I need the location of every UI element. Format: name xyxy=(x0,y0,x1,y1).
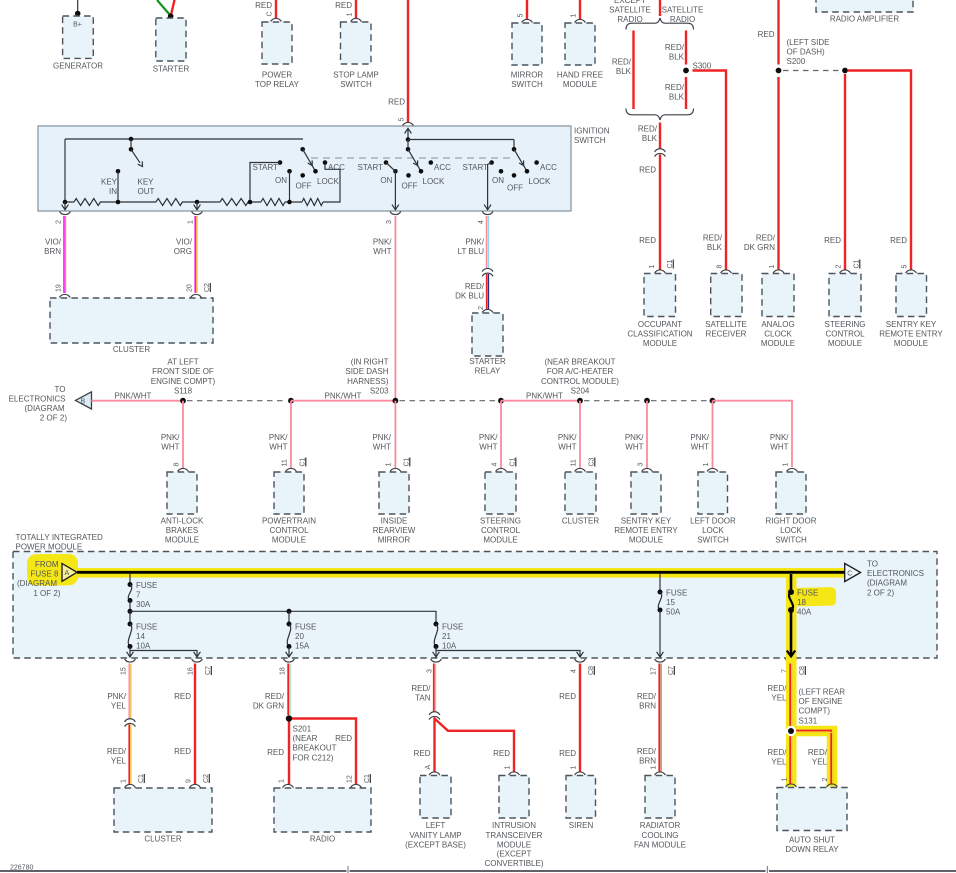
svg-text:AT LEFT: AT LEFT xyxy=(167,357,198,366)
wire RED S200 to analog clock module xyxy=(744,77,779,270)
svg-text:50A: 50A xyxy=(666,608,681,617)
svg-text:LOCK: LOCK xyxy=(317,177,339,186)
generator xyxy=(53,16,103,70)
svg-text:STARTER: STARTER xyxy=(153,65,190,74)
svg-text:RED: RED xyxy=(639,166,656,175)
svg-text:1: 1 xyxy=(188,220,195,224)
inline connector occupant wire xyxy=(655,149,666,157)
pin C1 radio xyxy=(364,774,371,783)
svg-text:PNK/: PNK/ xyxy=(690,433,709,442)
svg-text:RED: RED xyxy=(758,30,775,39)
svg-text:ACC: ACC xyxy=(328,163,345,172)
svg-text:DK GRN: DK GRN xyxy=(744,243,775,252)
wire RED/YEL to cluster pin1 xyxy=(107,724,131,784)
node S200 xyxy=(776,38,830,73)
svg-text:RED: RED xyxy=(414,749,431,758)
wire PNK/YEL tipm pin15 xyxy=(107,664,130,720)
left vanity lamp xyxy=(405,776,466,850)
svg-text:TO: TO xyxy=(55,385,66,394)
svg-text:2: 2 xyxy=(822,778,829,782)
connector arc stop lamp switch xyxy=(351,18,362,21)
svg-text:RED: RED xyxy=(493,749,510,758)
wire PNK/WHT ignition pin 3 to S203 xyxy=(373,216,396,400)
wire RED tipm pin4 to siren xyxy=(559,664,580,773)
connector arc satellite receiver xyxy=(721,270,732,273)
auto shut down relay xyxy=(777,788,847,855)
connector arc relay pin1 xyxy=(786,784,797,787)
label satellite radio xyxy=(662,6,704,25)
svg-text:EXCEPT: EXCEPT xyxy=(614,0,646,5)
wire fuse rail xyxy=(130,611,436,624)
svg-text:2 OF 2): 2 OF 2) xyxy=(40,414,67,423)
svg-text:WHT: WHT xyxy=(691,443,709,452)
svg-text:RED/: RED/ xyxy=(665,43,685,52)
svg-text:BLK: BLK xyxy=(616,67,632,76)
wire bus to fuse 15 xyxy=(659,574,661,592)
svg-text:ON: ON xyxy=(380,176,392,185)
svg-text:WHT: WHT xyxy=(770,443,788,452)
node ignition feed junction xyxy=(406,137,411,142)
svg-text:40A: 40A xyxy=(797,608,812,617)
svg-text:RED: RED xyxy=(255,1,272,10)
svg-text:1: 1 xyxy=(571,14,578,18)
connector arc ignition pin 2 xyxy=(60,211,71,214)
wire exit arrow pin 3 xyxy=(433,651,440,658)
svg-text:CLUSTER: CLUSTER xyxy=(562,517,600,526)
pin C1 steering control lower xyxy=(510,457,517,466)
wire bus black from fuse8 to electronics xyxy=(77,571,845,574)
node S203 xyxy=(345,357,398,403)
node S131 xyxy=(786,688,845,737)
connector arc steering lower xyxy=(496,468,507,471)
svg-text:MODULE: MODULE xyxy=(483,536,517,545)
svg-text:CLASSIFICATION: CLASSIFICATION xyxy=(627,330,692,339)
svg-text:IN: IN xyxy=(109,187,117,196)
svg-text:(DIAGRAM: (DIAGRAM xyxy=(17,579,57,588)
connector arc cluster pin9 xyxy=(190,784,201,787)
svg-text:(EXCEPT: (EXCEPT xyxy=(497,850,532,859)
svg-text:2: 2 xyxy=(836,265,843,269)
svg-text:21: 21 xyxy=(442,632,451,641)
svg-text:S200: S200 xyxy=(787,57,806,66)
wire rail to fuse 14 xyxy=(129,611,131,624)
svg-text:BREAKOUT: BREAKOUT xyxy=(293,744,337,753)
pin C2 cluster bottom xyxy=(203,774,210,783)
svg-text:ACC: ACC xyxy=(434,163,451,172)
svg-text:YEL: YEL xyxy=(111,702,127,711)
svg-text:S201: S201 xyxy=(293,725,312,734)
svg-text:RED: RED xyxy=(559,749,576,758)
svg-text:WHT: WHT xyxy=(269,443,287,452)
svg-text:YEL: YEL xyxy=(812,758,828,767)
label except satellite radio xyxy=(609,0,651,24)
radio xyxy=(274,788,371,844)
inside rearview mirror xyxy=(373,472,416,545)
svg-text:RED: RED xyxy=(388,98,405,107)
wire RED/BLK except-satellite branch xyxy=(612,31,634,110)
wire RED/YEL branch to relay pin2 xyxy=(791,731,833,785)
svg-text:STARTER: STARTER xyxy=(469,357,506,366)
left door lock switch xyxy=(690,472,736,545)
svg-text:8: 8 xyxy=(174,463,181,467)
wire ignition internal cross rail xyxy=(408,139,514,141)
svg-text:ENGINE COMPT): ENGINE COMPT) xyxy=(151,377,216,386)
wire stub to group3 pivot xyxy=(513,140,515,150)
svg-text:ANALOG: ANALOG xyxy=(761,320,794,329)
svg-text:MIRROR: MIRROR xyxy=(378,536,411,545)
svg-text:1: 1 xyxy=(121,779,128,783)
svg-text:(EXCEPT BASE): (EXCEPT BASE) xyxy=(405,840,466,849)
connector arc tipm pin 7 xyxy=(786,659,797,662)
svg-text:REMOTE ENTRY: REMOTE ENTRY xyxy=(879,330,943,339)
svg-text:1: 1 xyxy=(386,463,393,467)
wire PNK/WHT to inside rearview mirror xyxy=(372,401,395,469)
svg-text:RED: RED xyxy=(559,692,576,701)
fuse F15 xyxy=(658,589,688,617)
svg-text:BLK: BLK xyxy=(642,134,658,143)
siren xyxy=(566,776,596,831)
svg-text:MODULE: MODULE xyxy=(165,536,199,545)
svg-text:SIREN: SIREN xyxy=(569,821,594,830)
svg-text:ELECTRONICS: ELECTRONICS xyxy=(867,569,924,578)
svg-text:2: 2 xyxy=(56,220,63,224)
wire dashed bus segment 6 xyxy=(584,400,643,402)
svg-text:RED: RED xyxy=(335,734,352,743)
wire group3 output to pin 4 xyxy=(484,163,491,210)
svg-text:ELECTRONICS: ELECTRONICS xyxy=(9,395,66,404)
wire PNK/WHT to left door lock switch xyxy=(690,401,712,469)
node S118 xyxy=(151,357,216,403)
highlight bus band xyxy=(44,568,845,578)
svg-text:CLUSTER: CLUSTER xyxy=(144,835,182,844)
intrusion transceiver module xyxy=(485,776,544,869)
svg-text:FOR A/C-HEATER: FOR A/C-HEATER xyxy=(547,367,614,376)
connector arc hand free module xyxy=(575,19,586,22)
wire exit arrow pin 1 xyxy=(194,202,201,210)
wire RED/DK BLU to starter relay xyxy=(455,274,488,310)
svg-text:SWITCH: SWITCH xyxy=(574,136,606,145)
wire rail to fuse 20 xyxy=(288,611,290,624)
svg-text:18: 18 xyxy=(797,598,806,607)
connector arc right door xyxy=(787,468,798,471)
svg-text:3: 3 xyxy=(427,669,434,673)
connector arc mirror switch xyxy=(522,19,533,22)
wire RED/BLK below brace xyxy=(638,123,660,150)
svg-text:ORG: ORG xyxy=(174,247,192,256)
connector arc intrusion xyxy=(509,772,520,775)
steering control module (lower) xyxy=(480,472,521,545)
connector arc cluster pin 20 xyxy=(191,294,202,297)
node generator B+ terminal xyxy=(75,11,81,17)
svg-text:COMPT): COMPT) xyxy=(799,707,831,716)
svg-text:RED/: RED/ xyxy=(767,748,787,757)
svg-text:SWITCH: SWITCH xyxy=(511,80,543,89)
svg-text:2 OF 2): 2 OF 2) xyxy=(867,588,894,597)
svg-text:PNK/: PNK/ xyxy=(372,433,391,442)
node rail junctions xyxy=(63,200,292,205)
svg-text:TO: TO xyxy=(867,560,878,569)
svg-text:REARVIEW: REARVIEW xyxy=(373,526,416,535)
brace top split xyxy=(626,18,694,30)
svg-text:STEERING: STEERING xyxy=(480,517,521,526)
wire RED to occupant classification module xyxy=(639,154,660,270)
svg-text:15A: 15A xyxy=(295,642,310,651)
pin C3 cluster xyxy=(589,457,596,466)
svg-text:1: 1 xyxy=(649,265,656,269)
radio amplifier xyxy=(816,0,913,24)
cluster (middle) xyxy=(562,472,600,526)
svg-text:RED: RED xyxy=(174,747,191,756)
svg-text:WHT: WHT xyxy=(558,443,576,452)
svg-text:RED/: RED/ xyxy=(703,234,723,243)
connector arc steering control xyxy=(840,270,851,273)
svg-text:SATELLITE: SATELLITE xyxy=(705,320,747,329)
highlight from-fuse8 blob xyxy=(27,554,78,586)
stop lamp switch xyxy=(333,22,379,89)
svg-text:BLK: BLK xyxy=(669,93,685,102)
node S204 xyxy=(541,357,619,403)
pin C1 occupant xyxy=(667,259,674,268)
cluster (upper) xyxy=(50,298,213,354)
wire PNK/WHT to sentry key module xyxy=(625,401,647,469)
svg-text:MIRROR: MIRROR xyxy=(511,71,544,80)
resistor R2 xyxy=(156,199,182,206)
svg-text:RED/: RED/ xyxy=(756,234,776,243)
svg-text:RECEIVER: RECEIVER xyxy=(706,330,747,339)
svg-text:5: 5 xyxy=(902,265,909,269)
svg-text:MODULE: MODULE xyxy=(643,339,677,348)
svg-text:MODULE: MODULE xyxy=(629,536,663,545)
connector arc starter relay xyxy=(482,309,493,312)
wire group2 output to pin 3 xyxy=(392,171,399,210)
svg-text:OF DASH): OF DASH) xyxy=(787,48,826,57)
svg-text:1: 1 xyxy=(783,463,790,467)
svg-text:11: 11 xyxy=(571,459,578,466)
wire RED/BLK satellite branch lower xyxy=(665,77,686,109)
svg-text:RED/: RED/ xyxy=(808,748,828,757)
switch group3 start-acc xyxy=(463,147,558,193)
connector triangle C xyxy=(845,563,861,581)
svg-text:KEY: KEY xyxy=(138,178,155,187)
label ignition switch xyxy=(574,126,610,145)
svg-text:BRAKES: BRAKES xyxy=(166,526,198,535)
svg-text:PNK/: PNK/ xyxy=(770,433,789,442)
switch group2 start-acc xyxy=(358,147,452,191)
svg-text:LEFT DOOR: LEFT DOOR xyxy=(690,517,736,526)
svg-text:11: 11 xyxy=(282,459,289,466)
svg-text:10A: 10A xyxy=(136,642,151,651)
svg-text:ANTI-LOCK: ANTI-LOCK xyxy=(161,517,204,526)
connector arc relay pin2 xyxy=(827,784,838,787)
radiator cooling fan module xyxy=(634,776,686,850)
connector arc powertrain xyxy=(286,468,297,471)
wire exit arrow pin 15 xyxy=(127,651,134,658)
starter relay xyxy=(469,313,506,376)
wire VIO/ORG ignition to cluster xyxy=(174,216,197,293)
svg-text:(NEAR: (NEAR xyxy=(293,734,318,743)
svg-text:TAN: TAN xyxy=(415,694,431,703)
svg-text:OFF: OFF xyxy=(402,182,418,191)
fuse F18 xyxy=(788,589,818,617)
wire ignition internal top rail xyxy=(65,138,303,140)
svg-text:10A: 10A xyxy=(442,642,457,651)
svg-text:KEY: KEY xyxy=(101,178,118,187)
connector arc occupant xyxy=(655,270,666,273)
connector arc tipm pin 17 xyxy=(655,659,666,662)
wire from S300 to satellite receiver xyxy=(693,71,727,271)
svg-text:DOWN RELAY: DOWN RELAY xyxy=(785,845,839,854)
svg-text:20: 20 xyxy=(187,284,194,292)
svg-text:OF ENGINE: OF ENGINE xyxy=(799,697,843,706)
connector arc inside rearview xyxy=(390,468,401,471)
svg-text:MODULE: MODULE xyxy=(563,80,597,89)
resistor R1 xyxy=(74,199,100,206)
svg-text:POWERTRAIN: POWERTRAIN xyxy=(262,517,316,526)
svg-text:C: C xyxy=(267,11,274,16)
svg-text:9: 9 xyxy=(186,779,193,783)
wire RED S201 to radio pin1 xyxy=(267,722,289,785)
linkage dashed line xyxy=(311,157,514,159)
switch key in/out xyxy=(101,137,155,202)
pin C8 label siren xyxy=(588,666,595,675)
svg-text:MODULE: MODULE xyxy=(761,339,795,348)
svg-text:YEL: YEL xyxy=(111,757,127,766)
svg-text:HARNESS): HARNESS) xyxy=(347,377,389,386)
svg-text:RADIATOR: RADIATOR xyxy=(640,821,681,830)
svg-text:FUSE: FUSE xyxy=(295,623,316,632)
resistor R4 xyxy=(261,199,285,206)
svg-text:RED/: RED/ xyxy=(638,125,658,134)
node splice sentry xyxy=(644,398,650,404)
wire RED from radio amplifier xyxy=(758,0,779,65)
svg-text:ACC: ACC xyxy=(540,163,557,172)
wire RED/BLK satellite branch upper xyxy=(665,31,686,65)
wire VIO/BRN ignition to cluster xyxy=(44,216,65,293)
svg-text:RED: RED xyxy=(267,748,284,757)
wire fuse18 to exit pin 7 xyxy=(787,610,795,657)
label from fuse 8 diagram 1of2 xyxy=(17,560,61,598)
svg-text:A: A xyxy=(425,765,432,770)
svg-text:INSIDE: INSIDE xyxy=(381,517,408,526)
svg-text:CONVERTIBLE): CONVERTIBLE) xyxy=(485,859,544,868)
svg-text:WHT: WHT xyxy=(161,443,179,452)
svg-text:AUTO SHUT: AUTO SHUT xyxy=(789,835,835,844)
power top relay xyxy=(255,22,300,89)
connector arc radiator fan xyxy=(655,772,666,775)
node starter terminal xyxy=(168,13,174,19)
svg-text:BRN: BRN xyxy=(44,247,61,256)
svg-text:CONTROL: CONTROL xyxy=(825,330,865,339)
svg-text:START: START xyxy=(253,163,279,172)
svg-text:ON: ON xyxy=(275,176,287,185)
wire exit arrow pin 16 xyxy=(196,651,198,658)
steering control module (upper) xyxy=(825,274,866,349)
svg-text:RADIO: RADIO xyxy=(310,835,335,844)
svg-text:RED: RED xyxy=(639,236,656,245)
fuse F14 xyxy=(128,622,158,651)
svg-text:TOP RELAY: TOP RELAY xyxy=(255,80,300,89)
svg-text:YEL: YEL xyxy=(771,694,787,703)
svg-text:RED/: RED/ xyxy=(665,83,685,92)
svg-text:CLUSTER: CLUSTER xyxy=(113,345,151,354)
connector arc radio pin1 xyxy=(283,784,294,787)
svg-text:PNK/: PNK/ xyxy=(107,692,126,701)
resistor R3 xyxy=(220,199,248,206)
svg-text:RED: RED xyxy=(824,236,841,245)
wire RED splice to sentry key module xyxy=(848,71,911,271)
connector arc tipm pin 15 xyxy=(125,659,136,662)
connector arc tipm pin 4 xyxy=(575,659,586,662)
connector arc tipm pin 3 xyxy=(431,659,442,662)
wire dashed bus segment 4 xyxy=(400,400,498,402)
svg-text:14: 14 xyxy=(136,632,145,641)
svg-text:PNK/WHT: PNK/WHT xyxy=(325,392,362,401)
svg-text:12: 12 xyxy=(347,775,354,783)
cluster (bottom) xyxy=(114,788,212,844)
svg-text:LOCK: LOCK xyxy=(529,177,551,186)
connector arc ignition pin 4 xyxy=(482,211,493,214)
svg-text:IGNITION: IGNITION xyxy=(574,126,610,135)
svg-text:START: START xyxy=(463,163,489,172)
svg-text:POWER MODULE: POWER MODULE xyxy=(16,543,83,552)
wire exit arrow pin 4 xyxy=(579,651,581,658)
svg-text:PNK/: PNK/ xyxy=(465,238,484,247)
svg-text:16: 16 xyxy=(188,667,195,675)
svg-text:5: 5 xyxy=(518,14,525,18)
svg-text:YEL: YEL xyxy=(771,758,787,767)
svg-text:(DIAGRAM: (DIAGRAM xyxy=(25,404,65,413)
svg-text:3: 3 xyxy=(638,463,645,467)
svg-text:1 OF 2): 1 OF 2) xyxy=(33,589,60,598)
svg-text:4: 4 xyxy=(492,463,499,467)
connector triangle A xyxy=(62,564,77,582)
node splice powertrain xyxy=(288,398,294,404)
svg-text:FROM: FROM xyxy=(35,560,59,569)
svg-text:1: 1 xyxy=(651,766,658,770)
svg-text:MODULE: MODULE xyxy=(828,339,862,348)
wire PNK/LT BLU ignition pin 4 xyxy=(458,216,489,269)
hand free module xyxy=(557,23,603,89)
wire PNK/WHT bus segment 5 xyxy=(501,392,580,401)
wire red to starter xyxy=(171,0,175,15)
label RED/BLK satellite receiver xyxy=(703,234,723,253)
connector arc cluster pin1 xyxy=(125,784,136,787)
connector arc left door xyxy=(707,468,718,471)
wire RED to mirror switch xyxy=(526,0,528,19)
highlight fuse18 drop band xyxy=(786,568,797,658)
svg-text:RED: RED xyxy=(890,236,907,245)
svg-text:PNK/WHT: PNK/WHT xyxy=(115,392,152,401)
svg-text:FUSE: FUSE xyxy=(666,589,687,598)
svg-text:PNK/: PNK/ xyxy=(161,433,180,442)
svg-text:17: 17 xyxy=(651,667,658,675)
svg-text:WHT: WHT xyxy=(373,247,391,256)
right door lock switch xyxy=(766,472,817,545)
anti-lock brakes module xyxy=(161,472,204,545)
svg-text:PNK/: PNK/ xyxy=(479,433,498,442)
svg-text:MODULE: MODULE xyxy=(894,339,928,348)
svg-text:C: C xyxy=(847,570,852,577)
svg-text:RED: RED xyxy=(174,692,191,701)
svg-text:FOR C212): FOR C212) xyxy=(293,753,334,762)
wire RED/YEL tipm pin7 to S131 xyxy=(767,664,792,785)
satellite receiver xyxy=(705,274,747,339)
wire PNK/WHT bus segment 3 xyxy=(291,392,395,401)
highlight relay wire band vertical xyxy=(786,658,797,787)
svg-text:SATELLITE: SATELLITE xyxy=(662,6,704,15)
svg-text:30A: 30A xyxy=(136,600,151,609)
svg-text:LOCK: LOCK xyxy=(702,526,724,535)
